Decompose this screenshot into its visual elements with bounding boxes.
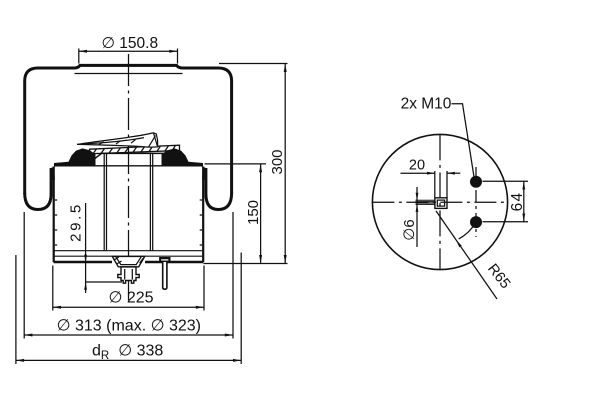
rolling lobe left <box>25 168 51 210</box>
svg-text:29.5: 29.5 <box>68 202 85 242</box>
piston wall top corner thickening <box>51 168 53 180</box>
dim: diameter 313 (max 323) <box>24 212 233 339</box>
dim: d_R diameter 338 <box>16 253 241 365</box>
svg-text:20: 20 <box>409 158 425 174</box>
svg-text:∅ 150.8: ∅ 150.8 <box>101 35 158 52</box>
bolt circle arc fragment r=41 <box>459 223 475 239</box>
dim: 300 right <box>219 64 288 264</box>
svg-text:∅ 225: ∅ 225 <box>108 290 153 307</box>
centerline through holes <box>475 167 477 237</box>
roll pin <box>160 258 170 289</box>
svg-text:150: 150 <box>245 200 262 225</box>
piston outer walls <box>53 167 55 263</box>
bolt hole upper M10 <box>470 176 482 188</box>
svg-text:∅6: ∅6 <box>401 219 418 240</box>
bellows cuff right (solid rubber section) <box>162 148 204 166</box>
piston centre tube <box>103 154 105 251</box>
slot diameter 6 <box>416 200 436 204</box>
piston top surface <box>54 165 203 167</box>
dim: diameter 6 <box>416 187 418 247</box>
svg-text:300: 300 <box>269 149 286 174</box>
dim: diameter 225 <box>53 266 204 311</box>
bead plate lower edge <box>75 73 183 75</box>
tilted bumper wedge <box>77 133 158 147</box>
dim: diameter 150.8 top <box>79 49 178 64</box>
hatched piston top plate <box>90 145 180 154</box>
air fitting stud <box>118 267 139 283</box>
piston cone top <box>86 153 185 165</box>
main circle <box>372 134 507 269</box>
svg-text:∅ 313 (max. ∅ 323): ∅ 313 (max. ∅ 323) <box>57 318 201 335</box>
svg-text:64: 64 <box>509 192 526 212</box>
svg-text:2x M10: 2x M10 <box>401 96 452 113</box>
bolt hole lower M10 <box>470 216 482 228</box>
centerline vertical <box>439 134 441 269</box>
label R65 with leader <box>436 211 497 299</box>
dim: 20 <box>401 171 461 198</box>
centerline main view <box>128 54 130 300</box>
piston bottom plate <box>54 250 203 252</box>
bellows bell outer contour <box>25 65 232 194</box>
rolling lobe right <box>206 168 232 210</box>
dim: 64 <box>483 181 529 221</box>
bellows cuff left (solid rubber section) <box>54 148 96 166</box>
dim: 29.5 <box>86 203 122 293</box>
dim: 150 right <box>204 164 288 264</box>
central square boss <box>435 198 447 209</box>
piston wall surface ticks <box>55 200 202 245</box>
centerline horizontal <box>372 201 507 203</box>
bead plate top line (plateau) <box>80 64 177 66</box>
centre bowl recess <box>112 256 144 266</box>
